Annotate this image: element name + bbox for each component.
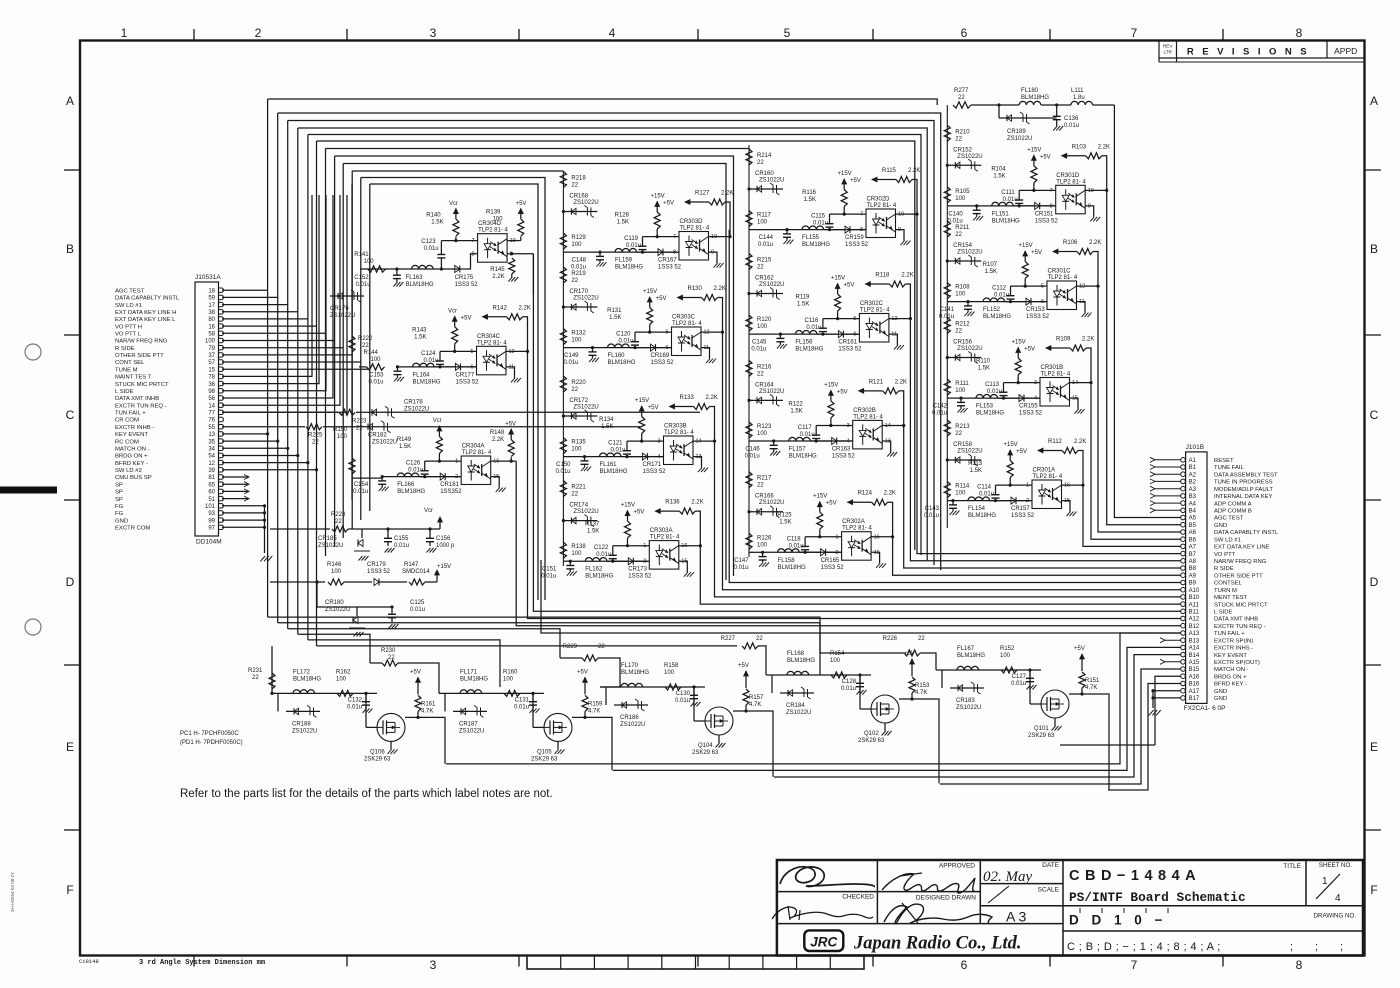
- svg-text:FL161: FL161: [600, 462, 618, 468]
- svg-text:BLM18HG: BLM18HG: [615, 265, 643, 271]
- svg-text:FL153: FL153: [976, 404, 994, 410]
- svg-text:1SS3 52: 1SS3 52: [651, 360, 675, 366]
- svg-text:VO PTT L: VO PTT L: [115, 332, 142, 338]
- svg-text:R SIDE: R SIDE: [115, 346, 135, 352]
- svg-text:KEY EVENT: KEY EVENT: [1214, 653, 1247, 659]
- svg-text:R122: R122: [788, 401, 803, 407]
- svg-text:B1: B1: [1189, 465, 1197, 471]
- svg-text:EXCTR TUN REQ -: EXCTR TUN REQ -: [115, 403, 167, 409]
- svg-text:16: 16: [874, 534, 880, 540]
- svg-text:Q101: Q101: [1034, 726, 1049, 732]
- svg-text:2: 2: [643, 559, 646, 565]
- svg-text:CR304C: CR304C: [477, 334, 501, 340]
- svg-text:0.01u: 0.01u: [987, 389, 1002, 395]
- svg-text:0.01u: 0.01u: [979, 492, 994, 498]
- svg-text:FL164: FL164: [413, 372, 431, 378]
- svg-text:CR164: CR164: [755, 382, 774, 388]
- svg-text:D: D: [66, 575, 75, 589]
- svg-text:ZS1022U: ZS1022U: [759, 500, 784, 506]
- svg-text:1.5K: 1.5K: [609, 315, 621, 321]
- svg-text:+5V: +5V: [1024, 347, 1035, 353]
- svg-text:100: 100: [757, 542, 768, 548]
- svg-text:100: 100: [336, 676, 347, 682]
- svg-text:B6: B6: [1189, 537, 1197, 543]
- svg-text:51: 51: [208, 497, 215, 503]
- svg-text:2.2K: 2.2K: [492, 437, 504, 443]
- svg-text:0.01u: 0.01u: [734, 565, 749, 571]
- svg-text:5: 5: [784, 26, 791, 40]
- svg-text:C ; B ; D ; − ; 1 ; 4 ; 8 ; 4: C ; B ; D ; − ; 1 ; 4 ; 8 ; 4 ; A ;: [1067, 941, 1221, 953]
- svg-text:TLP2 81- 4: TLP2 81- 4: [650, 535, 680, 541]
- svg-text:CR166: CR166: [755, 494, 774, 500]
- svg-text:FL159: FL159: [615, 258, 633, 264]
- svg-text:C115: C115: [811, 214, 826, 220]
- svg-text:1SS352: 1SS352: [440, 489, 462, 495]
- svg-text:9: 9: [711, 250, 714, 256]
- svg-text:R146: R146: [327, 562, 342, 568]
- svg-text:REVISIONS: REVISIONS: [1187, 47, 1315, 58]
- svg-text:2.2K: 2.2K: [519, 305, 531, 311]
- svg-text:C153: C153: [369, 372, 384, 378]
- svg-text:R225: R225: [308, 433, 323, 439]
- svg-text:22: 22: [571, 492, 578, 498]
- svg-text:4: 4: [1034, 396, 1037, 402]
- svg-text:0.01u: 0.01u: [514, 704, 529, 710]
- svg-text:1.5K: 1.5K: [985, 269, 997, 275]
- svg-text:R115: R115: [882, 168, 897, 174]
- svg-text:14: 14: [208, 403, 215, 409]
- svg-text:DATE: DATE: [1042, 862, 1060, 869]
- svg-text:F: F: [1370, 883, 1377, 897]
- svg-text:8: 8: [1050, 203, 1053, 209]
- svg-text:100: 100: [757, 324, 768, 330]
- svg-text:C155: C155: [394, 536, 409, 542]
- svg-text:58: 58: [208, 332, 215, 338]
- svg-text:CR158: CR158: [953, 442, 972, 448]
- svg-text:22: 22: [958, 95, 965, 101]
- svg-text:C131: C131: [515, 697, 530, 703]
- svg-text:C141: C141: [940, 307, 955, 313]
- svg-text:3H-H5594-04 08-27: 3H-H5594-04 08-27: [10, 872, 15, 912]
- svg-text:R124: R124: [858, 491, 873, 497]
- svg-text:ZS1022U: ZS1022U: [404, 406, 429, 412]
- svg-text:R215: R215: [757, 258, 772, 264]
- svg-text:STUCK MIC PRTCT: STUCK MIC PRTCT: [115, 382, 169, 388]
- svg-text:TLP2 81- 4: TLP2 81- 4: [1056, 179, 1086, 185]
- svg-text:A: A: [1370, 94, 1378, 108]
- svg-text:APPROVED: APPROVED: [939, 863, 975, 870]
- svg-text:1SS3 52: 1SS3 52: [643, 469, 667, 475]
- svg-text:12: 12: [704, 330, 710, 336]
- svg-text:5: 5: [470, 349, 473, 355]
- svg-text:ZS1022U: ZS1022U: [573, 405, 598, 411]
- svg-text:4.7K: 4.7K: [749, 702, 761, 708]
- svg-text:1SS3 52: 1SS3 52: [1019, 411, 1043, 417]
- svg-text:A11: A11: [1189, 602, 1200, 608]
- svg-text:SCALE: SCALE: [1038, 887, 1060, 894]
- svg-text:1SS3 52: 1SS3 52: [838, 347, 862, 353]
- svg-text:A3: A3: [1189, 487, 1197, 493]
- svg-text:R228: R228: [331, 512, 346, 518]
- svg-text:1SS3 52: 1SS3 52: [658, 265, 682, 271]
- svg-text:80: 80: [208, 317, 215, 323]
- svg-text:16: 16: [493, 459, 499, 465]
- svg-text:B8: B8: [1189, 566, 1197, 572]
- svg-text:35: 35: [208, 439, 215, 445]
- svg-text:BLM18HG: BLM18HG: [957, 653, 985, 659]
- svg-text:ZS1022U: ZS1022U: [372, 440, 397, 446]
- svg-text:R214: R214: [757, 153, 772, 159]
- svg-text:VO PTT: VO PTT: [1214, 552, 1236, 558]
- svg-text:2.2K: 2.2K: [714, 286, 726, 292]
- svg-text:100: 100: [955, 292, 966, 298]
- svg-text:CR187: CR187: [459, 721, 478, 727]
- svg-text:ZS1022U: ZS1022U: [330, 313, 355, 319]
- svg-text:C126: C126: [406, 461, 421, 467]
- svg-text:0.01u: 0.01u: [994, 293, 1009, 299]
- svg-text:A5: A5: [1189, 516, 1197, 522]
- svg-text:9: 9: [1088, 203, 1091, 209]
- svg-text:1SS3 52: 1SS3 52: [845, 242, 869, 248]
- svg-text:1SS3 52: 1SS3 52: [821, 565, 845, 571]
- svg-text:22: 22: [571, 278, 578, 284]
- svg-text:1SS3 52: 1SS3 52: [1011, 513, 1035, 519]
- svg-text:RC COM: RC COM: [115, 439, 139, 445]
- svg-text:ZS1022U: ZS1022U: [325, 607, 350, 613]
- svg-text:22: 22: [955, 136, 962, 142]
- svg-text:2.2K: 2.2K: [884, 491, 896, 497]
- svg-text:FL167: FL167: [957, 646, 975, 652]
- svg-text:0.01u: 0.01u: [675, 698, 690, 704]
- svg-text:R150: R150: [333, 427, 348, 433]
- svg-text:A: A: [66, 94, 74, 108]
- svg-text:100: 100: [493, 217, 504, 223]
- svg-text:ZS1022U: ZS1022U: [786, 710, 811, 716]
- svg-text:BLM18HG: BLM18HG: [787, 658, 815, 664]
- svg-text:R211: R211: [955, 225, 970, 231]
- svg-text:A 3: A 3: [1006, 909, 1026, 925]
- svg-text:R226: R226: [883, 636, 898, 642]
- svg-text:ZS1022U: ZS1022U: [459, 728, 484, 734]
- svg-text:C146: C146: [745, 447, 760, 453]
- svg-text:0.01u: 0.01u: [610, 448, 625, 454]
- svg-text:16: 16: [1064, 483, 1070, 489]
- svg-text:AGC TEST: AGC TEST: [1214, 516, 1244, 522]
- svg-text:TUN FAIL +: TUN FAIL +: [1214, 631, 1245, 637]
- svg-text:22: 22: [598, 644, 605, 650]
- svg-text:EXCTR COM: EXCTR COM: [115, 526, 150, 532]
- svg-text:2: 2: [1026, 498, 1029, 504]
- svg-text:+15V: +15V: [1012, 340, 1026, 346]
- svg-text:R127: R127: [695, 191, 710, 197]
- svg-text:CR165: CR165: [821, 558, 840, 564]
- svg-text:TLP2 81- 4: TLP2 81- 4: [1041, 372, 1071, 378]
- svg-text:R104: R104: [991, 166, 1006, 172]
- svg-text:DESIGNED DRAWN: DESIGNED DRAWN: [916, 895, 976, 902]
- svg-text:0.01u: 0.01u: [932, 411, 947, 417]
- svg-text:R216: R216: [757, 364, 772, 370]
- svg-text:CR180: CR180: [325, 600, 344, 606]
- svg-text:;: ;: [1315, 941, 1318, 953]
- svg-text:EXCTR SP(IN): EXCTR SP(IN): [1214, 638, 1253, 644]
- svg-text:2.2K: 2.2K: [908, 168, 920, 174]
- svg-text:CR172: CR172: [569, 398, 588, 404]
- svg-text:CR171: CR171: [643, 462, 662, 468]
- svg-text:R128: R128: [615, 213, 630, 219]
- svg-text:100: 100: [571, 551, 582, 557]
- svg-text:ZS1022U: ZS1022U: [573, 509, 598, 515]
- svg-text:1.8u: 1.8u: [1073, 95, 1085, 101]
- svg-text:C128: C128: [842, 679, 857, 685]
- svg-text:11: 11: [1079, 299, 1085, 305]
- svg-text:15: 15: [493, 474, 499, 480]
- svg-text:R151: R151: [1085, 678, 1100, 684]
- svg-text:78: 78: [208, 375, 215, 381]
- svg-text:02. May: 02. May: [983, 869, 1032, 885]
- svg-text:Q106: Q106: [370, 749, 385, 755]
- svg-text:3: 3: [847, 423, 850, 429]
- svg-text:BLM18HG: BLM18HG: [968, 513, 996, 519]
- svg-text:ADP COMM A: ADP COMM A: [1214, 501, 1252, 507]
- svg-text:ADP COMM B: ADP COMM B: [1214, 509, 1252, 515]
- svg-text:8: 8: [673, 250, 676, 256]
- svg-text:C149: C149: [564, 353, 579, 359]
- svg-text:1: 1: [455, 459, 458, 465]
- svg-text:R210: R210: [955, 129, 970, 135]
- svg-text:R133: R133: [680, 395, 695, 401]
- svg-text:R134: R134: [599, 417, 614, 423]
- svg-text:R116: R116: [802, 190, 817, 196]
- svg-text:1SS3 52: 1SS3 52: [832, 454, 856, 460]
- svg-text:ZS1022U: ZS1022U: [1007, 136, 1032, 142]
- svg-text:ZS1022U: ZS1022U: [620, 722, 645, 728]
- svg-text:+15V: +15V: [437, 564, 451, 570]
- svg-text:ZS1022U: ZS1022U: [957, 250, 982, 256]
- svg-text:BLM18HG: BLM18HG: [789, 454, 817, 460]
- svg-text:34: 34: [208, 447, 215, 453]
- svg-text:FG: FG: [115, 504, 124, 510]
- svg-text:+15V: +15V: [1019, 243, 1033, 249]
- svg-text:R117: R117: [757, 213, 772, 219]
- svg-text:L111: L111: [1071, 88, 1084, 94]
- svg-text:R217: R217: [757, 476, 772, 482]
- svg-text:NAR/W FREQ RNG: NAR/W FREQ RNG: [1214, 559, 1267, 565]
- svg-text:8: 8: [1296, 958, 1303, 972]
- svg-text:Vcr: Vcr: [449, 201, 458, 207]
- svg-text:R157: R157: [749, 695, 764, 701]
- svg-text:BLM18HG: BLM18HG: [413, 379, 441, 385]
- svg-text:14: 14: [696, 439, 702, 445]
- svg-text:CR301A: CR301A: [1033, 468, 1056, 474]
- svg-text:B14: B14: [1189, 653, 1200, 659]
- svg-text:R277: R277: [954, 88, 969, 94]
- svg-text:CR169: CR169: [651, 353, 670, 359]
- svg-text:R140: R140: [426, 213, 441, 219]
- svg-text:R135: R135: [571, 440, 586, 446]
- svg-text:1.5K: 1.5K: [617, 220, 629, 226]
- svg-text:4: 4: [1335, 893, 1341, 904]
- svg-text:R129: R129: [571, 235, 586, 241]
- svg-text:+5V: +5V: [837, 389, 848, 395]
- svg-text:BLM18HG: BLM18HG: [976, 411, 1004, 417]
- svg-text:Japan Radio Co., Ltd.: Japan Radio Co., Ltd.: [853, 934, 1022, 954]
- svg-text:R126: R126: [757, 535, 772, 541]
- svg-text:A17: A17: [1189, 689, 1200, 695]
- svg-text:38: 38: [208, 310, 215, 316]
- svg-text:CR152: CR152: [953, 147, 972, 153]
- svg-text:B9: B9: [1189, 581, 1197, 587]
- svg-text:Vcr: Vcr: [448, 308, 457, 314]
- svg-text:CR177: CR177: [456, 372, 475, 378]
- svg-text:1.5K: 1.5K: [779, 520, 791, 526]
- svg-text:2.2K: 2.2K: [721, 191, 733, 197]
- svg-text:4: 4: [657, 454, 660, 460]
- svg-text:60: 60: [208, 490, 215, 496]
- svg-text:AGC TEST: AGC TEST: [115, 288, 145, 294]
- svg-text:A15: A15: [1189, 660, 1200, 666]
- svg-text:C120: C120: [616, 332, 631, 338]
- svg-text:+5V: +5V: [738, 663, 749, 669]
- svg-text:CR189: CR189: [1007, 129, 1026, 135]
- svg-text:22: 22: [312, 440, 319, 446]
- svg-text:CR301B: CR301B: [1041, 365, 1064, 371]
- svg-text:TUNE IN PROGRESS: TUNE IN PROGRESS: [1214, 480, 1273, 486]
- svg-text:R121: R121: [869, 379, 884, 385]
- svg-text:1.5K: 1.5K: [431, 220, 443, 226]
- svg-text:0.01u: 0.01u: [541, 574, 556, 580]
- svg-text:CR181: CR181: [440, 482, 459, 488]
- svg-text:6: 6: [961, 26, 968, 40]
- svg-text:TLP2 81- 4: TLP2 81- 4: [664, 430, 694, 436]
- svg-text:B13: B13: [1189, 638, 1200, 644]
- svg-text:ZS1022U: ZS1022U: [573, 200, 598, 206]
- svg-text:4: 4: [847, 439, 850, 445]
- svg-text:R230: R230: [381, 648, 396, 654]
- svg-text:CR174: CR174: [569, 503, 588, 509]
- svg-text:OTHER SIDE PTT: OTHER SIDE PTT: [1214, 573, 1263, 579]
- svg-text:0.01u: 0.01u: [1003, 197, 1018, 203]
- svg-text:22: 22: [571, 387, 578, 393]
- svg-text:CR303D: CR303D: [680, 219, 704, 225]
- svg-text:EXT DATA KEY LINE: EXT DATA KEY LINE: [1214, 545, 1270, 551]
- svg-text:1.5K: 1.5K: [797, 302, 809, 308]
- svg-text:E: E: [1370, 740, 1378, 754]
- svg-text:+5V: +5V: [656, 296, 667, 302]
- svg-text:ZS1022U: ZS1022U: [759, 389, 784, 395]
- svg-text:+15V: +15V: [824, 382, 838, 388]
- svg-text:0.01u: 0.01u: [618, 339, 633, 345]
- svg-text:11: 11: [704, 345, 710, 351]
- svg-text:CR156: CR156: [953, 340, 972, 346]
- svg-text:11: 11: [891, 332, 897, 338]
- svg-text:R218: R218: [571, 176, 586, 182]
- svg-text:CR188: CR188: [292, 721, 311, 727]
- svg-text:R112: R112: [1048, 439, 1063, 445]
- svg-text:R213: R213: [955, 424, 970, 430]
- svg-text:BLM18HG: BLM18HG: [992, 218, 1020, 224]
- svg-text:100: 100: [955, 388, 966, 394]
- svg-text:1.5K: 1.5K: [601, 424, 613, 430]
- svg-text:C130: C130: [676, 691, 691, 697]
- svg-text:ZS1022U: ZS1022U: [957, 346, 982, 352]
- svg-text:R123: R123: [757, 424, 772, 430]
- svg-text:76: 76: [208, 418, 215, 424]
- svg-text:EXT DATA KEY LINE H: EXT DATA KEY LINE H: [115, 310, 176, 316]
- svg-text:;: ;: [1290, 941, 1293, 953]
- svg-text:ZS1022U: ZS1022U: [957, 154, 982, 160]
- svg-text:FL170: FL170: [621, 663, 639, 669]
- svg-text:C145: C145: [752, 340, 767, 346]
- svg-text:6: 6: [853, 332, 856, 338]
- svg-text:2.2K: 2.2K: [1074, 439, 1086, 445]
- svg-text:98: 98: [208, 389, 215, 395]
- svg-text:16: 16: [681, 543, 687, 549]
- svg-text:TLP2 81- 4: TLP2 81- 4: [680, 226, 710, 232]
- svg-text:ZS1022U: ZS1022U: [759, 282, 784, 288]
- svg-text:R130: R130: [688, 286, 703, 292]
- svg-text:0.01u: 0.01u: [1011, 681, 1026, 687]
- svg-text:1.5K: 1.5K: [993, 173, 1005, 179]
- svg-text:0.01u: 0.01u: [626, 243, 641, 249]
- svg-text:100: 100: [664, 670, 675, 676]
- svg-text:10: 10: [711, 234, 717, 240]
- svg-text:100: 100: [757, 220, 768, 226]
- svg-text:CR168: CR168: [569, 194, 588, 200]
- svg-text:FL163: FL163: [406, 275, 424, 281]
- svg-text:22: 22: [757, 160, 764, 166]
- svg-text:INTERNAL DATA KEY: INTERNAL DATA KEY: [1214, 494, 1273, 500]
- svg-text:ZS1022U: ZS1022U: [318, 543, 343, 549]
- svg-text:+5V: +5V: [1031, 250, 1042, 256]
- svg-text:100: 100: [571, 338, 582, 344]
- svg-text:+5V: +5V: [1016, 449, 1027, 455]
- svg-text:4.7K: 4.7K: [421, 708, 433, 714]
- svg-text:101: 101: [205, 504, 216, 510]
- svg-text:MAINT TES T: MAINT TES T: [115, 375, 152, 381]
- svg-text:0.01u: 0.01u: [596, 552, 611, 558]
- svg-text:CR160: CR160: [755, 171, 774, 177]
- svg-text:R119: R119: [795, 295, 810, 301]
- svg-text:CR173: CR173: [628, 567, 647, 573]
- svg-text:GND: GND: [1214, 523, 1227, 529]
- svg-text:+5V: +5V: [648, 405, 659, 411]
- svg-text:R231: R231: [248, 668, 263, 674]
- svg-text:7: 7: [1131, 26, 1138, 40]
- svg-text:BLM18HG: BLM18HG: [621, 670, 649, 676]
- svg-text:FX2CA1- 6 0P: FX2CA1- 6 0P: [1184, 705, 1226, 712]
- svg-text:CR179: CR179: [367, 562, 386, 568]
- svg-text:13: 13: [208, 432, 215, 438]
- svg-text:TUNE M: TUNE M: [115, 367, 138, 373]
- svg-text:EXCTR INHS -: EXCTR INHS -: [1214, 646, 1253, 652]
- svg-text:C118: C118: [787, 536, 802, 542]
- svg-text:A9: A9: [1189, 573, 1197, 579]
- svg-text:PS/INTF Board Schematic: PS/INTF Board Schematic: [1069, 890, 1246, 905]
- svg-text:CONTSEL: CONTSEL: [1214, 581, 1243, 587]
- svg-text:R109: R109: [1056, 337, 1071, 343]
- svg-text:ZS1022U: ZS1022U: [957, 449, 982, 455]
- svg-text:C156: C156: [436, 536, 451, 542]
- svg-text:EXCTR SP(OUT): EXCTR SP(OUT): [1214, 660, 1260, 666]
- svg-text:C152: C152: [354, 275, 369, 281]
- svg-text:PC1 H- 7PCHF0050C: PC1 H- 7PCHF0050C: [180, 731, 239, 737]
- svg-text:A10: A10: [1189, 588, 1200, 594]
- svg-text:SW LD #1: SW LD #1: [1214, 537, 1241, 543]
- svg-text:+15V: +15V: [1004, 442, 1018, 448]
- svg-text:FL152: FL152: [983, 307, 1001, 313]
- svg-text:100: 100: [571, 242, 582, 248]
- svg-text:22: 22: [362, 343, 369, 349]
